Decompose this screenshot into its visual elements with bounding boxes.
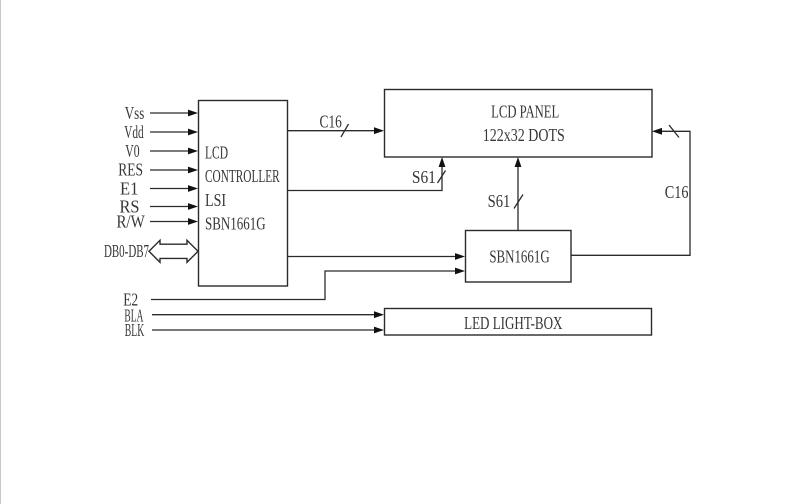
svg-text:V0: V0 bbox=[125, 141, 139, 161]
svg-text:Vss: Vss bbox=[125, 103, 145, 123]
svg-text:LCD PANEL: LCD PANEL bbox=[491, 102, 559, 122]
svg-text:C16: C16 bbox=[320, 111, 342, 131]
svg-text:SBN1661G: SBN1661G bbox=[489, 247, 549, 267]
svg-text:C16: C16 bbox=[665, 182, 689, 202]
svg-text:SBN1661G: SBN1661G bbox=[205, 213, 266, 233]
svg-text:RES: RES bbox=[118, 160, 143, 180]
svg-text:Vdd: Vdd bbox=[124, 122, 143, 142]
svg-text:LED LIGHT-BOX: LED LIGHT-BOX bbox=[464, 313, 562, 333]
svg-text:CONTROLLER: CONTROLLER bbox=[205, 166, 280, 186]
svg-text:LCD: LCD bbox=[205, 143, 228, 163]
svg-text:S61: S61 bbox=[488, 191, 511, 211]
svg-text:DB0-DB7: DB0-DB7 bbox=[104, 241, 149, 261]
svg-text:BLK: BLK bbox=[125, 320, 145, 340]
svg-text:122x32 DOTS: 122x32 DOTS bbox=[483, 125, 565, 145]
svg-text:S61: S61 bbox=[412, 167, 436, 187]
svg-text:LSI: LSI bbox=[205, 190, 226, 210]
svg-text:R/W: R/W bbox=[116, 212, 144, 232]
